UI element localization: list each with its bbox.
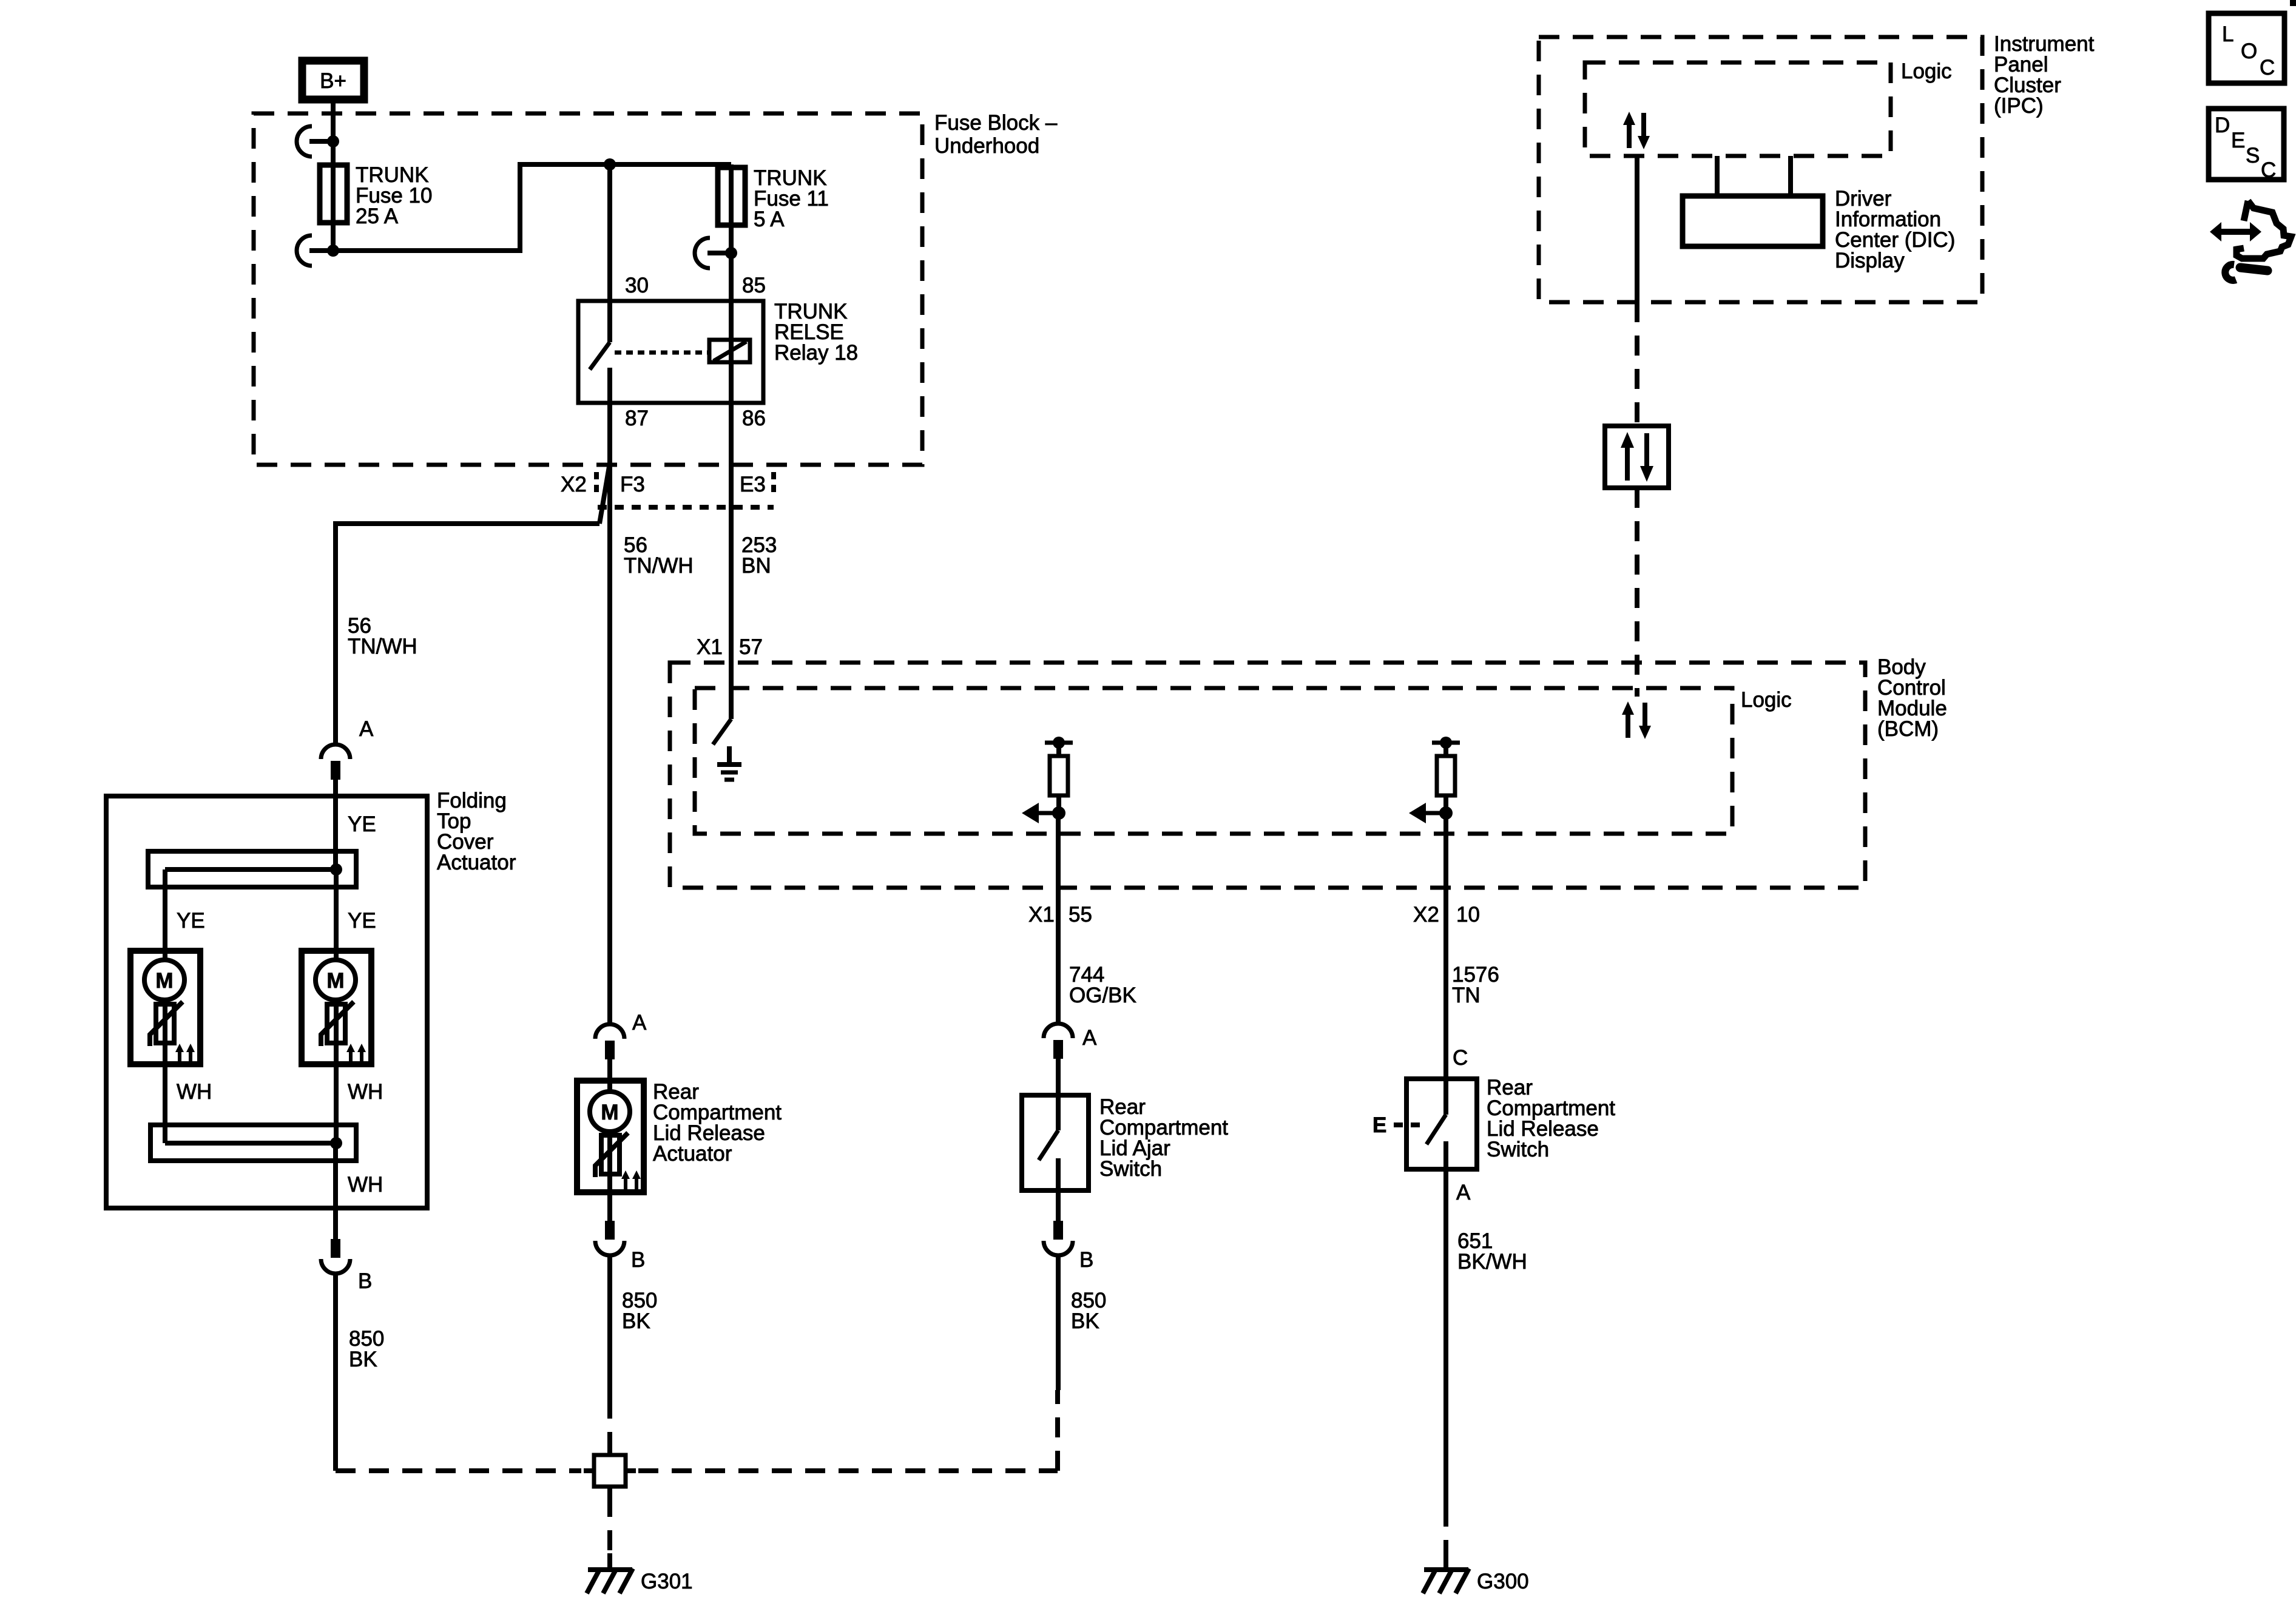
svg-text:C: C	[2260, 56, 2275, 79]
label circuit 850 BK center	[622, 1289, 657, 1333]
label release switch	[1487, 1076, 1615, 1161]
wire lid ajar switch to splice	[1056, 1255, 1061, 1390]
wire fuse 10 to junction	[333, 164, 731, 251]
release actuator motor	[590, 1092, 630, 1132]
label DIC display	[1835, 187, 1955, 272]
connector X2 labels band	[561, 472, 774, 507]
connector A folding top actuator	[321, 744, 350, 780]
svg-text:E: E	[2231, 129, 2245, 152]
body control module BCM dashed box	[670, 663, 1865, 888]
svg-text:55: 55	[1069, 903, 1092, 927]
folding top cover actuator box	[106, 796, 427, 1208]
wire into release actuator	[607, 1059, 612, 1092]
wire junction down to relay pin 30	[607, 164, 612, 342]
svg-text:Logic: Logic	[1901, 59, 1952, 83]
wire BCM X1-55 to lid ajar switch	[1056, 813, 1061, 1024]
svg-text:YE: YE	[348, 812, 376, 836]
relay K18 TRUNK RELSE box	[578, 301, 763, 403]
label fuse 11	[754, 166, 829, 231]
wire to ground splice	[607, 1255, 612, 1399]
dashed wire to splice run	[1055, 1390, 1060, 1471]
svg-text:Actuator: Actuator	[437, 851, 516, 874]
BCM serial data arrows	[1622, 701, 1651, 739]
relay pin 87 stub	[607, 368, 612, 403]
label Body Control Module BCM	[1877, 655, 1947, 741]
rear compartment lid release actuator box	[577, 1081, 644, 1192]
connector A release actuator	[595, 1024, 624, 1059]
label Fuse Block Underhood	[934, 111, 1058, 158]
svg-text:O: O	[2241, 39, 2257, 63]
label lid ajar switch	[1099, 1095, 1228, 1181]
svg-text:10: 10	[1456, 903, 1480, 927]
relay coil	[709, 340, 750, 362]
label circuit 744 OG/BK	[1069, 963, 1136, 1007]
svg-text:S: S	[2246, 144, 2260, 167]
serial data communication box	[1605, 426, 1669, 488]
svg-text:BK/WH: BK/WH	[1457, 1250, 1527, 1274]
svg-text:Fuse Block –: Fuse Block –	[934, 111, 1058, 135]
release switch lower contact	[1443, 1141, 1448, 1507]
svg-text:D: D	[2215, 113, 2230, 137]
svg-text:G301: G301	[641, 1570, 693, 1593]
svg-text:TN/WH: TN/WH	[624, 554, 694, 578]
svg-text:YE: YE	[177, 909, 205, 933]
DIC display legs	[1717, 156, 1791, 196]
label circuit 1576 TN	[1452, 963, 1499, 1007]
label circuit 651 BK/WH	[1457, 1229, 1527, 1274]
svg-text:X2: X2	[561, 473, 587, 496]
wire IPC logic to IPC edge	[1635, 156, 1639, 302]
svg-text:BK: BK	[349, 1348, 377, 1371]
wire B+ to fuse 10	[331, 100, 336, 166]
connector B release actuator	[595, 1221, 624, 1255]
bus bar bottom	[150, 1125, 356, 1161]
svg-text:M: M	[155, 969, 173, 993]
label relay 18	[774, 300, 858, 365]
svg-text:C: C	[1453, 1046, 1468, 1070]
svg-text:TN/WH: TN/WH	[348, 635, 417, 658]
driver information center display box	[1683, 196, 1823, 246]
motor M1	[144, 960, 184, 1000]
svg-text:WH: WH	[177, 1080, 212, 1104]
svg-text:BK: BK	[1071, 1309, 1099, 1333]
rear compartment lid release switch box	[1406, 1079, 1477, 1169]
connector terminal above fuse 10	[297, 126, 339, 157]
svg-text:85: 85	[742, 274, 766, 297]
icon DESC box	[2209, 109, 2284, 182]
wire BCM X2-10 to release switch	[1443, 813, 1448, 1079]
wire branch jog from F3 to left run	[599, 467, 609, 524]
svg-text:BN: BN	[741, 554, 771, 578]
svg-text:YE: YE	[348, 909, 376, 933]
svg-text:A: A	[1082, 1026, 1097, 1050]
svg-text:X1: X1	[1028, 903, 1055, 927]
svg-text:M: M	[601, 1101, 618, 1124]
label release actuator	[653, 1080, 782, 1166]
wire left run to folding top actuator	[336, 524, 599, 744]
label circuit 850 BK left	[349, 1327, 384, 1371]
BCM internal ground	[717, 746, 741, 780]
label circuit 56 TN/WH center	[624, 533, 694, 578]
connector B folding top actuator	[321, 1239, 350, 1274]
wire into folding top actuator	[333, 780, 338, 869]
wire to left motor	[163, 869, 167, 960]
wire relay 87 down through connector F3	[607, 403, 612, 1024]
svg-text:L: L	[2222, 22, 2234, 46]
IPC logic dashed box	[1585, 62, 1891, 156]
svg-text:Relay 18: Relay 18	[774, 341, 858, 365]
label connector X1 55	[1028, 903, 1092, 927]
BCM driver switch to ground	[713, 510, 731, 744]
fuse F11 TRUNK 5A	[718, 164, 745, 253]
page artifact dot top right	[2290, 0, 2296, 6]
connector B lid ajar switch	[1044, 1221, 1073, 1255]
svg-text:A: A	[359, 717, 374, 741]
battery feed B+	[302, 61, 364, 100]
svg-text:Underhood: Underhood	[934, 134, 1039, 158]
svg-text:Logic: Logic	[1741, 688, 1792, 712]
motor M2	[316, 960, 356, 1000]
BCM input arrow R2	[1409, 803, 1453, 823]
IPC serial data arrows	[1623, 112, 1650, 149]
svg-text:WH: WH	[348, 1080, 383, 1104]
svg-text:Switch: Switch	[1099, 1157, 1162, 1181]
node junction on feed wire	[604, 158, 616, 170]
wire fuse 11 to relay pin 85	[729, 253, 734, 403]
svg-text:E: E	[1373, 1113, 1386, 1137]
lid ajar switch lower contact	[1056, 1158, 1061, 1221]
label circuit 56 TN/WH left	[348, 614, 417, 658]
dashed ground run right	[638, 1468, 1058, 1473]
relay switch armature	[590, 342, 610, 370]
splice junction square	[584, 1445, 636, 1497]
label connector X2 10	[1413, 903, 1480, 927]
dashed serial data wire to BCM	[1635, 488, 1639, 697]
fuse F10 TRUNK 25A	[320, 165, 347, 251]
svg-text:5 A: 5 A	[754, 208, 785, 231]
label folding top cover actuator	[437, 789, 516, 874]
svg-text:TN: TN	[1452, 984, 1481, 1007]
svg-text:C: C	[2261, 158, 2276, 182]
svg-text:30: 30	[625, 274, 649, 297]
dashed wire splice to G301	[607, 1497, 612, 1558]
svg-text:B+: B+	[320, 69, 346, 93]
svg-text:Switch: Switch	[1487, 1138, 1549, 1161]
svg-text:Actuator: Actuator	[653, 1142, 732, 1166]
label connector X1 57	[697, 635, 763, 659]
motor M2 PTC thermistor	[321, 1000, 354, 1143]
svg-text:(IPC): (IPC)	[1994, 94, 2044, 118]
wire relay 86 down through connector E3	[729, 403, 734, 719]
svg-text:G300: G300	[1477, 1570, 1529, 1593]
lid ajar switch lever	[1039, 1130, 1058, 1160]
wire to right motor	[334, 869, 339, 960]
motor M2 arrows	[346, 1044, 366, 1063]
release switch lever	[1427, 1079, 1446, 1144]
icon LOC box	[2209, 13, 2284, 83]
label circuit 253 BN	[741, 533, 777, 578]
svg-text:Display: Display	[1835, 249, 1905, 272]
instrument panel cluster dashed box	[1539, 37, 1982, 302]
svg-text:87: 87	[625, 407, 649, 430]
svg-text:A: A	[632, 1011, 647, 1035]
svg-text:B: B	[1079, 1248, 1093, 1272]
svg-text:E3: E3	[740, 473, 766, 496]
BCM input arrow R1	[1022, 803, 1065, 823]
bus bar top	[148, 851, 356, 887]
dashed serial wire IPC to serial box	[1635, 302, 1639, 426]
svg-text:OG/BK: OG/BK	[1069, 984, 1136, 1007]
svg-text:A: A	[1456, 1181, 1471, 1204]
svg-text:B: B	[631, 1248, 645, 1272]
rear compartment lid ajar switch box	[1022, 1095, 1089, 1190]
wire into lid ajar switch	[1056, 1058, 1061, 1130]
svg-text:F3: F3	[620, 473, 645, 496]
svg-text:86: 86	[742, 407, 766, 430]
ground G300	[1423, 1553, 1469, 1593]
dashed wire to G300	[1443, 1507, 1448, 1558]
motor M1 arrows	[175, 1044, 195, 1063]
fuse block underhood dashed box	[254, 113, 922, 465]
svg-text:(BCM): (BCM)	[1877, 717, 1939, 741]
svg-text:WH: WH	[348, 1173, 383, 1197]
release actuator PTC thermistor	[595, 1132, 628, 1221]
label circuit 850 BK right	[1071, 1289, 1106, 1333]
motor M1 PTC thermistor	[150, 1000, 183, 1143]
motor M2 box	[302, 951, 371, 1064]
ground G301	[587, 1553, 633, 1593]
wire out of folding top actuator	[333, 1143, 338, 1239]
svg-text:BK: BK	[622, 1309, 650, 1333]
release actuator arrows	[621, 1170, 641, 1190]
wire down to splice run	[333, 1274, 338, 1471]
dashed link E to lever	[1394, 1122, 1427, 1127]
BCM pull-up resistor R2	[1432, 737, 1460, 813]
svg-text:X2: X2	[1413, 903, 1439, 927]
connector A lid ajar switch	[1044, 1024, 1073, 1059]
dashed wire to splice	[607, 1399, 612, 1447]
label instrument panel cluster	[1994, 32, 2095, 118]
svg-text:B: B	[358, 1269, 372, 1293]
BCM pull-up resistor R1	[1045, 737, 1073, 813]
svg-text:57: 57	[739, 635, 763, 659]
connector terminal below fuse 10	[297, 235, 339, 266]
relay actuation dashed link	[615, 351, 708, 355]
svg-text:X1: X1	[697, 635, 723, 659]
label fuse 10	[356, 163, 432, 228]
connector terminal below fuse 11	[695, 238, 737, 268]
svg-text:M: M	[326, 969, 344, 993]
dashed ground run left	[336, 1468, 581, 1473]
svg-text:25 A: 25 A	[356, 204, 399, 228]
icon door with arrows and wrench	[2210, 201, 2291, 280]
BCM logic dashed box	[695, 688, 1732, 834]
motor M1 box	[130, 951, 200, 1064]
